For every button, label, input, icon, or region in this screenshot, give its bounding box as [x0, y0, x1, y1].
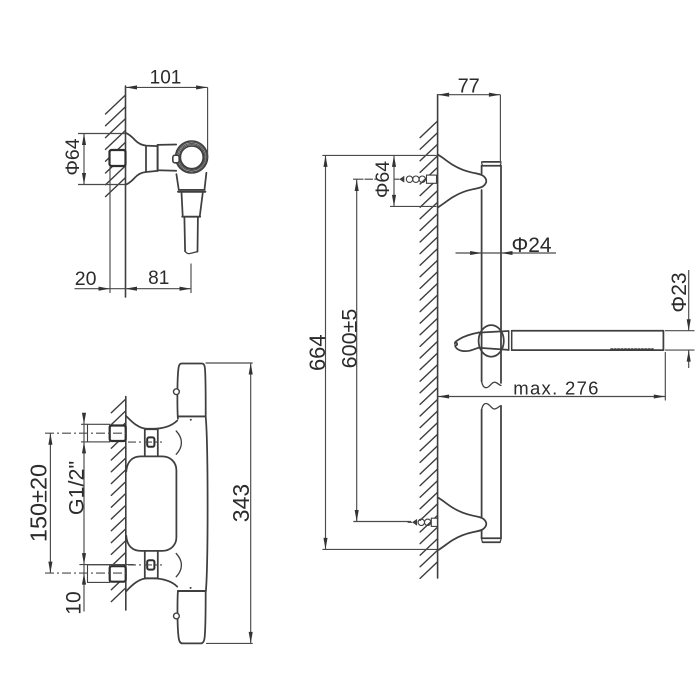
- svg-text:150±20: 150±20: [25, 464, 51, 542]
- body saddle top: [126, 416, 177, 429]
- arrow dim 77 left: [438, 93, 450, 97]
- bottom inlet pipe: [88, 565, 110, 583]
- svg-text:10: 10: [63, 591, 86, 614]
- bottom union pipe: [145, 551, 158, 578]
- arrow dim 343 top: [249, 363, 253, 375]
- flow button on bottom cap: [174, 613, 180, 619]
- handle taper: [182, 193, 203, 216]
- arrow dim 101 left: [126, 85, 138, 89]
- arrow dim 20/81 shared: [126, 287, 138, 291]
- svg-text:G1/2": G1/2": [64, 461, 88, 515]
- svg-text:81: 81: [148, 268, 169, 289]
- handle upper trapezoid: [176, 173, 206, 189]
- handle body: [512, 331, 664, 350]
- rail upper segment: [481, 166, 483, 381]
- escutcheon bell (side view): [126, 133, 158, 146]
- spray nozzle dots: [611, 348, 653, 350]
- tick above bottom separation: [190, 587, 192, 589]
- dim phi24: [456, 252, 557, 254]
- arrow dim 343 bottom: [249, 632, 253, 644]
- top escutcheon arc: [176, 431, 181, 454]
- arrows: [48, 85, 690, 643]
- arrow dim 600 top: [355, 180, 359, 192]
- arrow dim 101 right: [196, 85, 208, 89]
- rail upper break wave: [482, 381, 501, 387]
- body top cap (temperature handle): [177, 364, 205, 419]
- bottom inlet block: [110, 566, 126, 582]
- hand shower head: [455, 333, 479, 352]
- bottom escutcheon arc: [176, 554, 181, 577]
- slider ring: [479, 325, 504, 357]
- arrow dim G1/2 bottom: [82, 442, 86, 454]
- wall hatching (slide bar): [420, 121, 438, 578]
- dim 77: [438, 94, 501, 96]
- wall line: [125, 397, 127, 611]
- arrow dim phi64 valve bottom: [82, 173, 86, 185]
- top mount bell: [438, 155, 486, 207]
- dim 664: [325, 155, 327, 549]
- inlet block behind wall: [110, 150, 126, 166]
- arrow dim phi24 right: [501, 251, 513, 255]
- body bottom cap (flow handle): [177, 591, 205, 643]
- dim 343: [206, 362, 253, 364]
- dim phi64 (valve): [78, 133, 126, 135]
- svg-text:Φ64: Φ64: [372, 161, 394, 198]
- top union set screw: [147, 437, 154, 446]
- dim phi23: [665, 330, 695, 332]
- arrow dim phi64 bar bottom: [392, 195, 396, 207]
- handle stem: [184, 218, 198, 252]
- svg-text:max. 276: max. 276: [513, 377, 600, 398]
- top wall anchor screw: [365, 175, 437, 183]
- arrow dim 664 top: [323, 155, 327, 167]
- rail lower break wave: [482, 403, 501, 409]
- knob outer knurled ring: [176, 141, 208, 173]
- arrow dim 150 top: [48, 433, 52, 445]
- rail lower segment: [481, 410, 483, 539]
- arrow dim 77 right: [489, 93, 501, 97]
- small tab on knob left: [173, 155, 179, 163]
- bottom wall anchor screw: [408, 518, 437, 526]
- arrow dim G1/2 top: [82, 413, 86, 425]
- centerline top union: [128, 441, 162, 443]
- dim phi64 (bar): [322, 154, 436, 156]
- arrow dim max276 right: [654, 394, 666, 398]
- valve body cylinder: [158, 144, 177, 146]
- svg-text:343: 343: [228, 484, 254, 522]
- arrow dim phi23 top: [687, 319, 691, 331]
- joint ring: [508, 331, 510, 350]
- svg-text:Φ23: Φ23: [668, 272, 691, 312]
- tick below top separation: [190, 419, 192, 421]
- svg-text:Φ24: Φ24: [511, 234, 551, 257]
- centerline top inlet: [45, 432, 126, 434]
- wall hatching (front view): [111, 399, 126, 602]
- arrow dim 20: [99, 287, 111, 291]
- svg-text:664: 664: [305, 334, 330, 371]
- arrow dim phi64 valve top: [82, 134, 86, 146]
- top inlet block: [110, 426, 126, 442]
- arrow dim max276 left: [438, 394, 450, 398]
- arrow dim 664 bottom: [323, 538, 327, 550]
- arrow dim 10 top: [82, 553, 86, 565]
- wall line: [437, 95, 439, 578]
- dim 600±5: [356, 180, 358, 522]
- body right edge: [206, 416, 208, 591]
- svg-text:20: 20: [75, 268, 97, 290]
- central grip panel: [126, 456, 176, 551]
- svg-text:101: 101: [150, 68, 182, 89]
- top union pipe: [145, 429, 158, 456]
- svg-text:Φ64: Φ64: [62, 138, 84, 175]
- arrow dim phi64 bar top: [392, 155, 396, 167]
- body saddle bottom: [126, 578, 177, 591]
- svg-text:600±5: 600±5: [337, 309, 361, 369]
- wall line: [125, 86, 127, 297]
- arrow dim phi24 left: [470, 251, 482, 255]
- arrow dim 150 bottom: [48, 562, 52, 574]
- arrow dim phi23 bottom: [687, 350, 691, 362]
- arrow dim 81: [180, 287, 192, 291]
- dim 101: [126, 86, 208, 88]
- dim 150±20: [49, 433, 51, 573]
- bottom union set screw: [147, 560, 154, 569]
- dim 20 / 81: [75, 288, 192, 290]
- arrow dim 10 bottom: [82, 573, 86, 585]
- top inlet pipe: [88, 424, 110, 442]
- svg-text:77: 77: [458, 76, 480, 98]
- hand shower cone to handle: [479, 331, 509, 350]
- wall hatching (side view): [106, 95, 126, 197]
- dim max 276: [438, 396, 666, 398]
- safety button on top cap: [174, 389, 180, 395]
- bottom mount bell: [438, 498, 486, 550]
- dim G1/2 and 10 line: [83, 416, 85, 612]
- arrow dim 600 bottom: [355, 510, 359, 522]
